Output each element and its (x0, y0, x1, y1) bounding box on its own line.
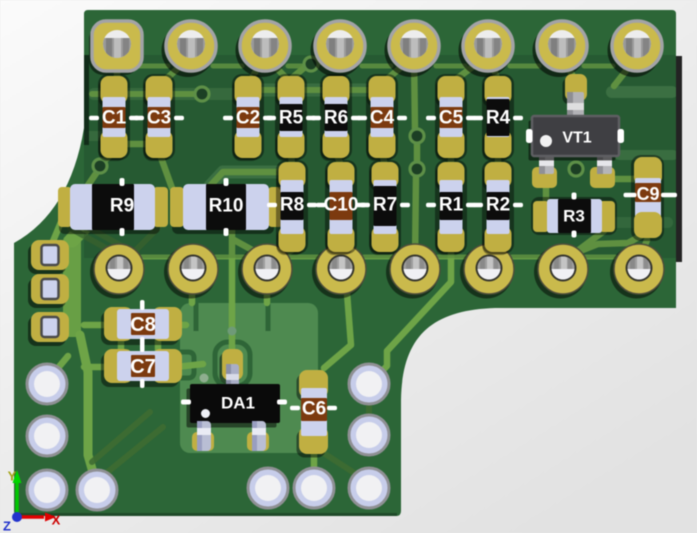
board right edge (676, 56, 682, 262)
wire C8-C7 right (155, 340, 162, 352)
wire pad7 to C9 bottom (570, 233, 646, 255)
pad P8 (608, 21, 663, 77)
pad P2 (162, 21, 217, 77)
capacitor C9 (624, 155, 678, 241)
wire pad4 to via (317, 55, 334, 63)
svg-text:R2: R2 (486, 195, 510, 216)
Z axis origin (12, 512, 22, 522)
wire left chain (92, 91, 198, 97)
VT1 silk brackets (526, 129, 533, 143)
wire VT1 to C9 top (610, 174, 645, 179)
wire pad3 to R5 (267, 58, 288, 80)
wire via to via (414, 142, 421, 164)
VT1 pin 1 lead (539, 153, 554, 174)
svg-text:C10: C10 (324, 195, 359, 216)
via A (195, 87, 209, 101)
wire band down (80, 335, 94, 476)
via E (410, 162, 424, 176)
pad P4 (311, 21, 366, 77)
wire pad8 diagonal (614, 58, 636, 86)
wire pad6 to R4 (489, 56, 497, 78)
wire via to R9 pad (66, 172, 97, 205)
resistor R7 (360, 160, 410, 255)
wire R4 to R2 (495, 155, 502, 166)
wire row2 pad4 to C6 (324, 280, 351, 368)
resistor R8 (267, 160, 317, 255)
pad P1 (square, pin 1) (89, 21, 142, 75)
wire pad6 to C5 (455, 56, 487, 80)
resistor R5 (266, 74, 316, 161)
pad Q4 (312, 244, 366, 299)
svg-text:VT1: VT1 (562, 130, 591, 147)
board bottom edge (16, 513, 397, 516)
svg-text:C9: C9 (636, 184, 659, 204)
svg-text:R8: R8 (280, 195, 304, 216)
svg-text:C7: C7 (130, 356, 156, 378)
capacitor C2 (223, 74, 273, 161)
pad Q8 (610, 244, 664, 299)
pad H8 (349, 415, 389, 455)
wire dark diag 5 (322, 452, 362, 478)
wire dark pads link (366, 398, 372, 424)
wire pad3 to C2 (252, 56, 264, 78)
svg-text:C6: C6 (302, 399, 326, 420)
Y axis (15, 482, 19, 517)
board left edge (84, 55, 89, 145)
pad H2 (27, 416, 67, 456)
svg-text:R4: R4 (486, 108, 511, 129)
wire top chain halo (252, 84, 368, 97)
pour clearance groove (196, 303, 268, 331)
pad Q7 (534, 244, 588, 299)
wide trace band 1 (606, 86, 678, 98)
capacitor C1 (89, 74, 139, 161)
wire R3 to row2 pad7 (565, 231, 604, 261)
svg-text:R3: R3 (563, 207, 585, 226)
DA1 pin 3 pad (top) (220, 353, 241, 384)
via C (93, 159, 107, 173)
svg-text:C1: C1 (102, 108, 127, 129)
pad H6 (294, 468, 334, 508)
via D (410, 129, 424, 143)
pad Q3 (238, 244, 292, 299)
wire R5 to R8 (291, 152, 292, 166)
pad H7 (349, 468, 389, 508)
wire C8-C7 left (118, 340, 125, 352)
capacitor C3 (134, 74, 184, 161)
capacitor C8 (101, 300, 182, 346)
pad P3 (236, 21, 291, 77)
capacitor C4 (357, 74, 407, 161)
pad H9 (349, 364, 389, 404)
pad P5 (385, 21, 440, 77)
wide trace band 2 (614, 150, 678, 160)
VT1 pin 2 pad (590, 167, 615, 188)
pad H1 (27, 364, 67, 404)
via B (304, 57, 318, 71)
VT1 pin 3 pad (top) (563, 78, 585, 105)
pad H5 (248, 468, 288, 508)
svg-text:C2: C2 (236, 108, 260, 129)
wide trace band 4 (88, 88, 250, 100)
pad S2 (28, 274, 69, 308)
svg-text:X: X (52, 513, 61, 528)
wire C7 right (176, 364, 203, 367)
svg-text:R5: R5 (279, 108, 304, 129)
svg-text:R1: R1 (439, 195, 464, 216)
pad P6 (459, 21, 514, 77)
pad P7 (533, 21, 588, 77)
svg-text:R10: R10 (209, 196, 244, 217)
wire row1 pad links (139, 64, 168, 69)
pad S3 (28, 312, 69, 346)
via F (569, 162, 583, 176)
wire R10 to R8 halo (210, 172, 293, 186)
wire dark diag 2 (104, 427, 163, 475)
X axis (17, 515, 44, 519)
wire VT1 to R3 (543, 186, 550, 204)
wire R6 to C10 (336, 152, 341, 166)
pad Q2 (164, 244, 218, 299)
DA1 body (187, 389, 277, 428)
via G (pour) (228, 327, 237, 336)
svg-text:C3: C3 (147, 108, 171, 129)
wire C1 to C3 bottom (120, 141, 150, 148)
pad S1 (28, 240, 69, 274)
resistor R2 (473, 160, 523, 255)
capacitor C7 (101, 343, 182, 388)
wide trace band 5 (84, 131, 110, 141)
pad Q6 (460, 244, 514, 299)
capacitor C6 (290, 370, 337, 458)
wire branch to row2 pad3 (234, 240, 264, 260)
svg-text:R7: R7 (373, 195, 397, 216)
capacitor C5 (426, 74, 476, 161)
svg-text:R9: R9 (110, 196, 134, 217)
VT1 pin 1 pad (532, 167, 557, 188)
VT1 pin 2 lead (597, 153, 612, 174)
op-amp DA1 (181, 349, 287, 451)
wire C5 to R1 (448, 152, 455, 166)
resistor R6 (311, 74, 361, 161)
resistor R10 (170, 178, 283, 236)
DA1 pin 1 lead (197, 421, 211, 451)
wire C10 to row2 pad4 (342, 248, 343, 262)
pour clearance around C7 pad (180, 352, 194, 378)
pad H3 (27, 470, 67, 510)
pad H4 (77, 470, 117, 510)
wire C7 left (84, 364, 106, 371)
svg-text:C4: C4 (370, 108, 395, 129)
wire R9 right down (128, 228, 158, 258)
wire R1 to bottom pad (374, 246, 451, 379)
axis indicator (3, 469, 61, 533)
wire C6 to bottom pad (311, 454, 318, 472)
wire pad7 to VT1 pin (562, 56, 574, 78)
wire R9 to square pad (51, 210, 66, 246)
resistor R1 (426, 160, 476, 255)
via H (pour) (200, 374, 209, 383)
wire C1 to via (104, 152, 114, 161)
capacitor C10 (316, 160, 366, 255)
wide power band upper (72, 219, 92, 240)
wire dark diag 1 (92, 412, 150, 462)
wire C8 right (176, 322, 186, 329)
svg-text:C8: C8 (130, 314, 156, 336)
wire pad1 to C1 (114, 62, 121, 80)
pour clearance around DA1 pin (215, 342, 250, 386)
wire row2 pad links (142, 255, 171, 260)
pad Q1 (90, 244, 144, 299)
wire dark diag 4 (84, 225, 134, 253)
svg-text:DA1: DA1 (221, 394, 255, 413)
VT1 body (529, 121, 616, 161)
transistor VT1 (526, 74, 624, 188)
wire row2 pad2 to pour (189, 280, 196, 303)
DA1 pin 2 lead (252, 421, 266, 451)
wire band to pad (53, 356, 68, 374)
wire pad2 to C3 (163, 58, 189, 82)
wire pad5 to C4 (386, 58, 412, 80)
wire dark diag 3 (70, 228, 120, 256)
wire R10 to R8 top (210, 172, 293, 186)
wire C8 left (84, 322, 106, 329)
copper pour region (180, 303, 318, 453)
wire top chain (252, 87, 368, 93)
pad Q5 (386, 244, 440, 299)
wire C4 to R7 (382, 152, 385, 166)
DA1 pin 1 pad (192, 432, 214, 451)
shadow overlay (84, 55, 677, 258)
wire via to R5 (292, 67, 305, 78)
wide power band (63, 235, 81, 337)
DA1 silk dashes (181, 400, 191, 405)
DA1 pin 2 pad (247, 432, 269, 451)
svg-text:C5: C5 (439, 108, 464, 129)
wire row2 pad3 to pour (264, 280, 271, 303)
wire R10 to DA1 pin (229, 196, 236, 352)
wide trace band 3 (598, 217, 673, 228)
resistor R3 (531, 193, 617, 238)
wire C9 to row2 pad8 (641, 240, 647, 256)
svg-text:Y: Y (8, 469, 17, 484)
wire via to row2 pad5 (415, 175, 416, 262)
svg-text:Z: Z (3, 519, 11, 533)
wire pad5 down to via (414, 54, 415, 130)
svg-text:R6: R6 (324, 108, 348, 129)
wire C3 to R10 (159, 152, 172, 188)
resistor R9 (58, 178, 168, 236)
wire R8 to row2 pad3 (272, 250, 292, 262)
resistor R4 (473, 74, 523, 161)
wire R2 to row2 pad6 (490, 246, 498, 261)
